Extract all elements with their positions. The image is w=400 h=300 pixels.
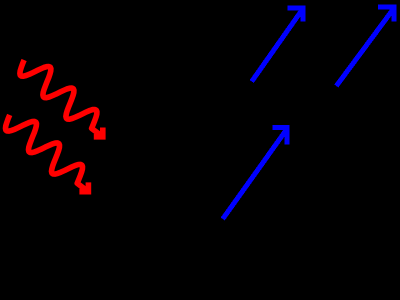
photon 2 arrowhead [79, 182, 88, 191]
electron 1 shaft [252, 10, 302, 82]
photon 2 squiggle shaft [6, 115, 89, 192]
photon wavy arrow 2 (red, incoming lower-left) [6, 115, 89, 192]
electron 1 arrowhead [287, 8, 303, 21]
electron 2 shaft [336, 10, 393, 87]
electron arrow 1 (blue, upper) [252, 8, 303, 82]
electron arrow 3 (blue, lower middle) [223, 128, 288, 219]
photon 1 squiggle shaft [20, 60, 103, 137]
electron arrow 2 (blue, right) [336, 7, 394, 86]
photon wavy arrow 1 (red, incoming upper-left) [20, 60, 103, 137]
electron 2 arrowhead [378, 7, 394, 21]
photon 1 arrowhead [94, 128, 103, 137]
electron 3 shaft [223, 130, 287, 219]
electron 3 arrowhead [272, 128, 287, 145]
